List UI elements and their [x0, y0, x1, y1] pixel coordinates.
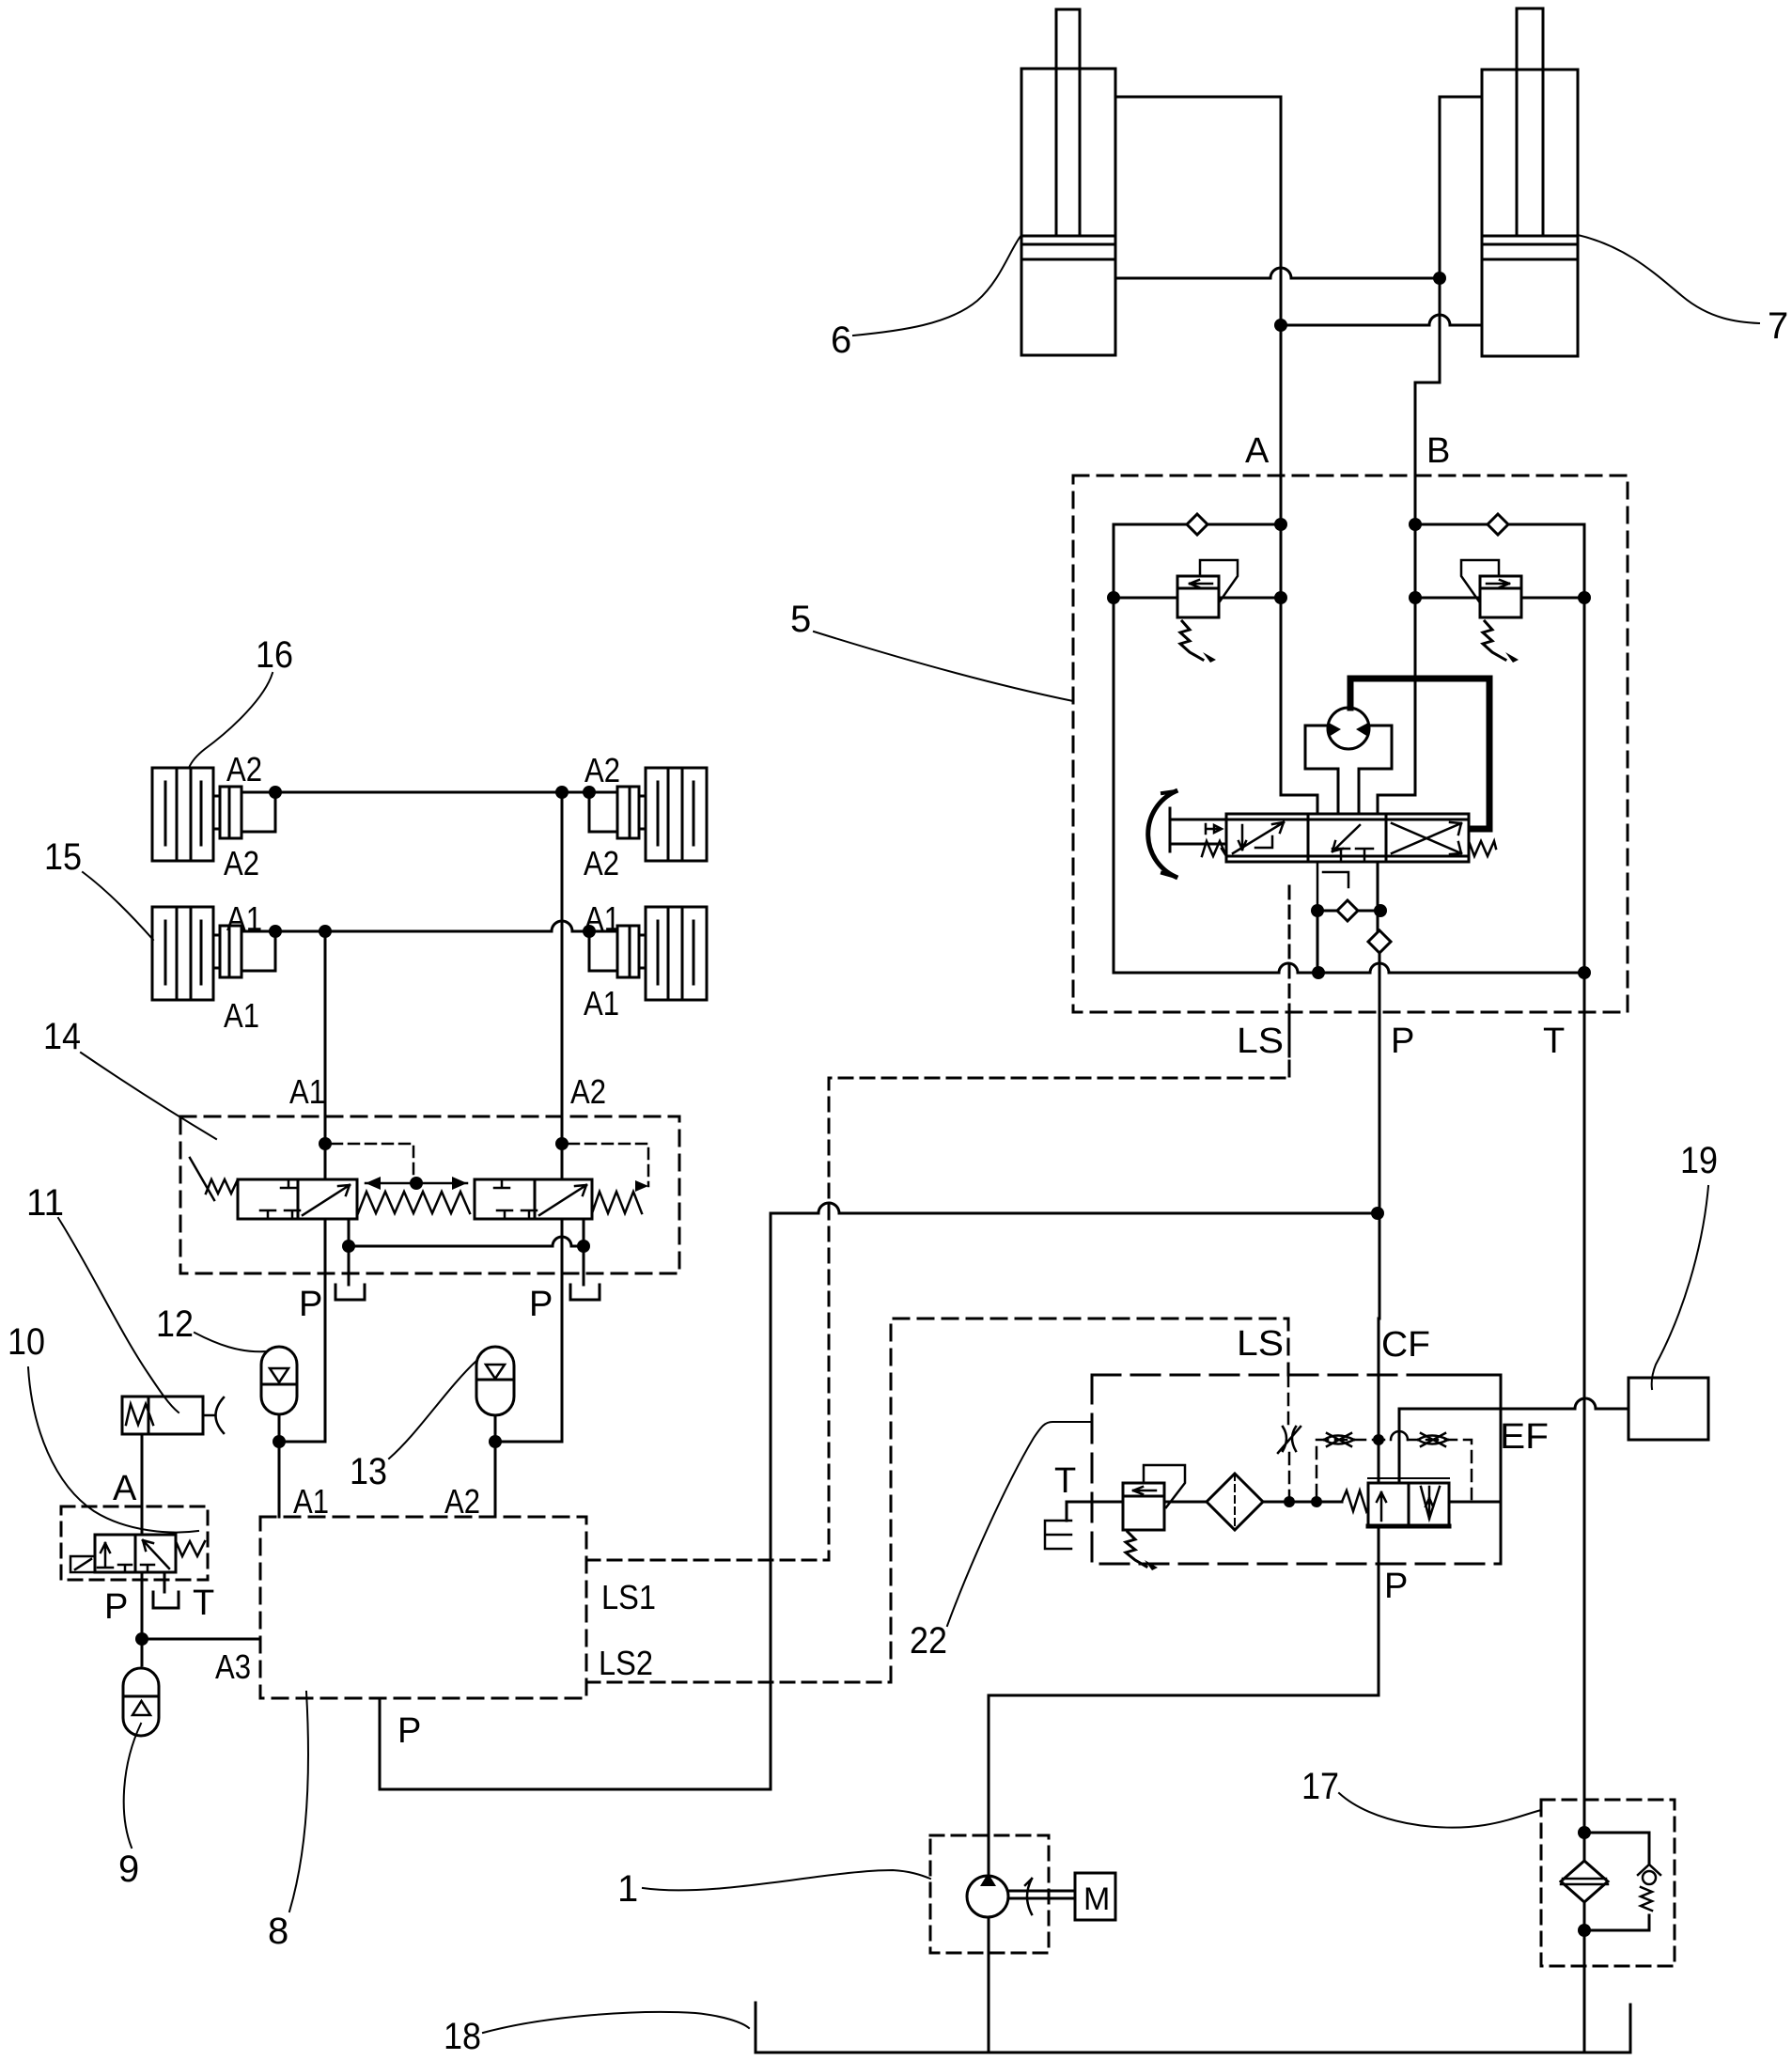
wire: valve 10 P to node	[141, 1572, 144, 1665]
label A1 (block 8)	[293, 1482, 329, 1521]
svg-text:14: 14	[43, 1016, 81, 1057]
wire: block 8 port A2	[494, 1442, 497, 1517]
steering spool valve of unit 5	[1226, 814, 1469, 862]
label A (valve 10 port)	[113, 1469, 137, 1508]
wire A1 row with hop over A2 drop	[275, 921, 589, 931]
leader 19	[1652, 1186, 1708, 1389]
svg-text:A3: A3	[215, 1647, 251, 1686]
svg-text:M: M	[1083, 1881, 1110, 1917]
label P of unit 5	[1391, 1022, 1414, 1061]
label LS of unit 5	[1237, 1022, 1284, 1061]
label A2 (right brake upper)	[584, 751, 620, 789]
wire: B-side check upper rail	[1415, 523, 1584, 526]
svg-text:A2: A2	[570, 1072, 606, 1111]
leader 8	[289, 1692, 308, 1912]
svg-text:10: 10	[8, 1321, 45, 1363]
priority spool valve body	[1368, 1478, 1449, 1526]
wire: relief to tank E	[1067, 1502, 1123, 1521]
brake front-right (A2)	[589, 768, 707, 861]
leader 15	[83, 872, 153, 940]
label A1 above valve 14	[289, 1072, 325, 1111]
tank symbol E of block 22	[1045, 1521, 1071, 1549]
svg-text:9: 9	[118, 1849, 139, 1890]
svg-text:T: T	[193, 1584, 214, 1623]
svg-text:15: 15	[44, 836, 82, 878]
wire P through spool (already inside)	[989, 1564, 1379, 1835]
check valve (B side)	[1488, 514, 1508, 535]
wire B riser	[1415, 97, 1440, 795]
wire: B jog into spool port	[1378, 795, 1415, 814]
svg-text:EF: EF	[1500, 1417, 1549, 1457]
node A3 junction	[135, 1632, 148, 1646]
check valve on P bridge	[1337, 900, 1358, 921]
wire: valve 11 to valve 10 (A)	[141, 1434, 144, 1535]
label A2 (brake 16 lower)	[224, 844, 259, 882]
svg-text:P: P	[1391, 1022, 1414, 1061]
label LS2	[599, 1644, 653, 1682]
svg-text:7: 7	[1768, 305, 1788, 347]
label P (valve 10)	[104, 1587, 128, 1627]
electric motor M box	[1075, 1873, 1115, 1920]
wire: filter to spool spring	[1263, 1501, 1342, 1504]
svg-text:B: B	[1426, 431, 1450, 471]
svg-text:LS1: LS1	[601, 1578, 656, 1616]
tank line 18	[756, 2003, 1630, 2052]
svg-text:1: 1	[617, 1868, 638, 1910]
label A2 above valve 14	[570, 1072, 606, 1111]
filter 17 dashed enclosure	[1541, 1800, 1675, 1966]
pilot dashed from A1 to shuttle	[332, 1144, 413, 1177]
leader 14	[81, 1053, 216, 1139]
wire: unit 5 bottom T rail with hops	[1114, 963, 1584, 973]
node accumulator 13 junction	[489, 1435, 502, 1448]
leader 9	[124, 1724, 141, 1848]
accumulator 9	[123, 1668, 159, 1736]
wire: spool LS tap bracket	[1317, 862, 1348, 911]
label T of unit 5	[1543, 1022, 1565, 1061]
wire: A2 junction to accumulator 13	[495, 1441, 562, 1444]
leader 17	[1339, 1793, 1541, 1828]
svg-text:A: A	[1245, 431, 1270, 471]
label 11	[26, 1182, 64, 1224]
accumulator 13	[476, 1347, 514, 1442]
node B rail junctions	[1409, 518, 1422, 531]
node accumulator 12 junction	[273, 1435, 286, 1448]
svg-text:LS2: LS2	[599, 1644, 653, 1682]
wire: A-side check/relief upper rail	[1114, 523, 1281, 526]
wire filter to tank line	[1583, 1966, 1586, 2052]
node P bridge junctions	[1311, 904, 1324, 917]
wire A3 to block 8	[142, 1638, 260, 1641]
label A1 (right brake lower)	[584, 984, 619, 1022]
pilot dashed sub-box around priority spool	[1317, 1440, 1472, 1499]
pump 1 circle	[967, 1835, 1008, 2052]
svg-text:A1: A1	[224, 996, 259, 1035]
label A (port of steering unit)	[1245, 431, 1270, 471]
label 8	[268, 1911, 288, 1952]
label 5	[790, 599, 811, 640]
filter diamond in block 22	[1207, 1474, 1263, 1530]
svg-text:5: 5	[790, 599, 811, 640]
wire: right inner rail (T) of unit 5	[1583, 524, 1586, 973]
relief valve (B side)	[1461, 560, 1521, 663]
valve 10 T port with tank symbol	[153, 1572, 179, 1608]
label 10	[8, 1321, 45, 1363]
wire A top: cylinder 6 rod-side port to A line	[1115, 96, 1281, 99]
wire: block 8 port P	[380, 1698, 771, 1789]
accumulator 12	[261, 1347, 297, 1442]
priority valve 22 inner dashed housing	[1092, 1375, 1501, 1564]
svg-text:18: 18	[444, 2016, 481, 2057]
valve 10 left pilot step	[70, 1556, 95, 1572]
leader 22	[947, 1422, 1091, 1626]
LS dashed drop inside block 22	[1288, 1375, 1289, 1496]
label 14	[43, 1016, 81, 1057]
svg-text:A2: A2	[444, 1482, 480, 1521]
spring right of spool	[1469, 841, 1496, 856]
label A2 (block 8)	[444, 1482, 480, 1521]
relief valve in block 22	[1123, 1465, 1185, 1570]
node P bridge right	[577, 1240, 590, 1253]
shuttle between sections	[366, 1177, 467, 1190]
svg-text:12: 12	[156, 1303, 194, 1345]
steering wheel symbol	[1148, 791, 1226, 877]
rotation arrow on shaft	[1025, 1879, 1032, 1914]
node LS junction	[1284, 1496, 1295, 1507]
brake 16 front-left (A2)	[152, 768, 275, 861]
spool spring of priority valve	[1342, 1490, 1371, 1511]
right spring of valve 14	[592, 1192, 642, 1213]
P port stub left with tank symbol	[335, 1246, 365, 1300]
label P (block 8)	[397, 1711, 421, 1751]
flow restrictor right on pilot line	[1418, 1433, 1448, 1446]
nodes on A1 row	[269, 925, 282, 938]
wire B top: cylinder 7 rod-side port	[1440, 96, 1482, 99]
P port stub right with tank symbol	[570, 1246, 600, 1300]
node pilot tap A1	[319, 1137, 332, 1150]
label A3	[215, 1647, 251, 1686]
label B (port of steering unit)	[1426, 431, 1450, 471]
node pilot tap A2	[555, 1137, 569, 1150]
node P bridge left	[342, 1240, 355, 1253]
gerotor metering motor of unit 5	[1305, 708, 1392, 814]
wire: P drop inside unit 5	[1378, 862, 1379, 1319]
priority valve area outer dashed boundary	[891, 1319, 1288, 1682]
EF riser from spool with hop over pilot box	[1398, 1409, 1401, 1483]
left end actuator of valve 14	[206, 1179, 238, 1194]
svg-text:A2: A2	[584, 844, 619, 882]
leader 10	[28, 1367, 198, 1533]
label A2 (right brake lower)	[584, 844, 619, 882]
wire: P bridge under spool	[1317, 910, 1380, 913]
wire: A line to cylinder 7 head-side port (hop over B riser)	[1281, 315, 1482, 325]
svg-text:T: T	[1054, 1461, 1076, 1501]
label 22	[910, 1620, 947, 1662]
right proportional valve body of 14	[475, 1179, 592, 1219]
node filter bottom	[1578, 1924, 1591, 1937]
centering spring between sections	[358, 1192, 470, 1213]
wire: block 8 port A1	[278, 1442, 281, 1517]
brake pedal valve 11	[122, 1397, 224, 1434]
brake valve block 14 dashed enclosure	[180, 1116, 679, 1273]
wire: spool to inner box right edge	[1449, 1501, 1501, 1504]
spring left of spool	[1202, 841, 1226, 856]
svg-text:T: T	[1543, 1022, 1565, 1061]
filter 17 diamond	[1561, 1800, 1608, 1966]
relief valve (A side)	[1177, 560, 1238, 663]
svg-text:LS: LS	[1237, 1324, 1284, 1364]
wire T main line from unit 5 to filter	[1583, 973, 1586, 1800]
label T (valve 10)	[193, 1584, 214, 1623]
svg-text:P: P	[104, 1587, 128, 1627]
node: junction on B riser at y296	[1433, 272, 1446, 285]
label A1 (brake 15 upper)	[226, 899, 262, 938]
svg-text:P: P	[1384, 1567, 1408, 1606]
label A2 (brake 16 upper)	[226, 750, 262, 788]
charge valve 10 dashed enclosure	[61, 1506, 208, 1580]
node filter top	[1578, 1826, 1591, 1839]
label P (left port of 14)	[299, 1285, 322, 1324]
node P branch junction	[1371, 1207, 1384, 1220]
leader 12	[195, 1333, 267, 1351]
svg-text:6: 6	[831, 320, 851, 361]
wire P main line from unit 5 to priority valve	[1378, 1319, 1380, 1564]
svg-text:A: A	[113, 1469, 137, 1508]
wire: B-side relief rail	[1415, 597, 1584, 600]
svg-text:P: P	[397, 1711, 421, 1751]
svg-text:16: 16	[256, 634, 293, 676]
valve 10 right spring	[176, 1541, 205, 1556]
node CF pilot junction	[1373, 1434, 1384, 1445]
svg-text:22: 22	[910, 1620, 947, 1662]
label LS (priority block)	[1237, 1324, 1284, 1364]
label 15	[44, 836, 82, 878]
label 6	[831, 320, 851, 361]
svg-text:A1: A1	[289, 1072, 325, 1111]
label 1	[617, 1868, 638, 1910]
check valve on P drop	[1368, 930, 1391, 953]
flow restrictor left on pilot line	[1324, 1433, 1354, 1446]
leader 1	[643, 1870, 930, 1890]
leader 18	[483, 2012, 749, 2033]
cylinder 7 (right steering cylinder)	[1482, 8, 1578, 356]
label T (block 22 tank)	[1054, 1461, 1076, 1501]
control block 8 dashed enclosure	[260, 1517, 586, 1698]
dashed LS1 wire from block 8	[586, 1012, 1289, 1560]
label 17	[1301, 1766, 1339, 1807]
dashed LS2 wire from block 8	[586, 1681, 891, 1684]
svg-text:A1: A1	[226, 899, 262, 938]
wire: left inner rail of unit 5	[1113, 524, 1115, 973]
label M	[1083, 1881, 1110, 1917]
svg-text:A2: A2	[224, 844, 259, 882]
node bottom rail junctions	[1312, 966, 1325, 979]
leader 11	[58, 1218, 179, 1412]
leader 13	[389, 1361, 476, 1459]
svg-text:8: 8	[268, 1911, 288, 1952]
svg-text:19: 19	[1680, 1140, 1718, 1181]
leader 5	[814, 632, 1073, 701]
wire: cylinder 6 head-side port to B line (hop over A)	[1115, 268, 1440, 278]
tank box 19	[1628, 1378, 1708, 1440]
left proportional valve body of 14	[238, 1179, 357, 1219]
label 19	[1680, 1140, 1718, 1181]
wire: A-side relief rail	[1114, 597, 1281, 600]
check valve (A side)	[1187, 514, 1208, 535]
thick feedback link	[1350, 679, 1489, 829]
label 13	[350, 1451, 387, 1492]
svg-text:A1: A1	[584, 984, 619, 1022]
brake 15 rear-left (A1)	[152, 907, 275, 1000]
node pilot junction	[1311, 1496, 1322, 1507]
leader 16	[189, 673, 273, 768]
wire EF to tank box 19 with hop over T line	[1399, 1398, 1628, 1409]
LS damping orifice	[1278, 1427, 1301, 1453]
svg-text:CF: CF	[1381, 1325, 1430, 1365]
pilot dashed from A2 to right spring	[569, 1144, 648, 1186]
svg-text:A1: A1	[293, 1482, 329, 1521]
svg-text:A2: A2	[584, 751, 620, 789]
label 9	[118, 1849, 139, 1890]
svg-text:LS: LS	[1237, 1022, 1284, 1061]
leader 6	[853, 235, 1021, 336]
nodes on A2 row	[269, 786, 282, 799]
label 12	[156, 1303, 194, 1345]
label A1 (brake 15 lower)	[224, 996, 259, 1035]
wire: relief to filter	[1164, 1501, 1207, 1504]
wire: A jog into spool port	[1281, 795, 1317, 814]
label 16	[256, 634, 293, 676]
label CF (priority block)	[1381, 1325, 1430, 1365]
node: junction on A line at y346	[1274, 319, 1287, 332]
wire P branch to block 8 with hop over LS riser	[771, 1203, 1378, 1789]
wire: P bridge under valve 14 with hop	[349, 1219, 584, 1246]
wire A2 drop column	[561, 792, 564, 1442]
wire: A1 junction to accumulator 12	[279, 1441, 325, 1444]
wire: spool T drop	[1317, 911, 1319, 973]
label P (below block 22)	[1384, 1567, 1408, 1606]
svg-text:P: P	[299, 1285, 322, 1324]
wire A1 drop column	[324, 931, 327, 1442]
label P (right port of 14)	[529, 1285, 553, 1324]
filter bypass check valve	[1584, 1833, 1660, 1930]
wire A line vertical	[1280, 97, 1283, 795]
svg-text:13: 13	[350, 1451, 387, 1492]
label EF	[1500, 1417, 1549, 1457]
charge valve 10 body	[95, 1535, 176, 1572]
label A1 (right brake upper)	[584, 899, 620, 938]
label LS1	[601, 1578, 656, 1616]
label 7	[1768, 305, 1788, 347]
steering unit 5 dashed enclosure	[1073, 476, 1628, 1012]
label 18	[444, 2016, 481, 2057]
brake rear-right (A1)	[589, 907, 707, 1000]
cylinder 6 (left steering cylinder)	[1021, 9, 1115, 355]
wire A2 row	[275, 791, 589, 794]
pump unit 1 dashed enclosure	[930, 1835, 1049, 1953]
leader 7	[1578, 235, 1759, 323]
svg-text:17: 17	[1301, 1766, 1339, 1807]
LS pilot dashed inside unit 5	[1288, 886, 1291, 1078]
pump shaft to motor M	[1008, 1891, 1075, 1898]
svg-text:P: P	[529, 1285, 553, 1324]
svg-text:A2: A2	[226, 750, 262, 788]
node A rail junctions	[1274, 518, 1287, 531]
